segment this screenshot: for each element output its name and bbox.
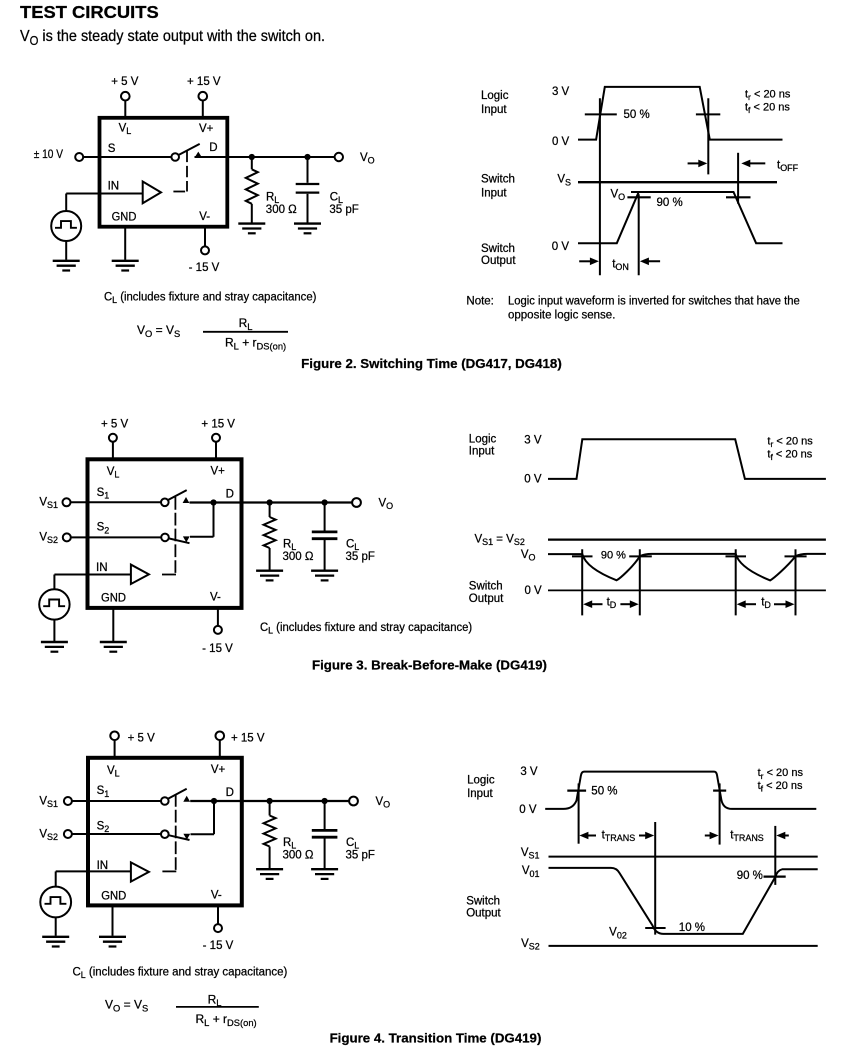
svg-text:is the steady state output wit: is the steady state output with the swit… bbox=[38, 28, 325, 45]
resistor RL 300ohm (fig2) bbox=[246, 169, 258, 204]
wire D to S2 contact horizontal (fig4) bbox=[191, 833, 215, 835]
svg-text:V-: V- bbox=[211, 890, 222, 902]
svg-text:< 20 ns: < 20 ns bbox=[763, 780, 803, 792]
capacitor CL 35pF (fig4) bbox=[312, 830, 338, 837]
svg-text:3 V: 3 V bbox=[524, 435, 542, 447]
svg-text:S1: S1 bbox=[47, 799, 58, 809]
0V level line (fig3) bbox=[548, 589, 826, 591]
wire S2 input (fig4) bbox=[72, 833, 161, 835]
logic input trace (fig4) bbox=[545, 772, 816, 809]
wire pulse gen to IN (fig2) bbox=[65, 194, 67, 212]
50% tick rising (fig2) bbox=[585, 113, 617, 115]
wire D to S2 contact vertical (fig4) bbox=[213, 801, 215, 834]
svg-text:02: 02 bbox=[617, 930, 627, 940]
wire IN net (fig4) bbox=[56, 870, 133, 872]
svg-text:+ 15 V: + 15 V bbox=[231, 733, 265, 745]
svg-text:V+: V+ bbox=[211, 465, 226, 477]
wire CL to ground (fig4) bbox=[324, 839, 326, 869]
wire D to RL (fig4) bbox=[269, 801, 271, 816]
svg-text:S2: S2 bbox=[47, 832, 58, 842]
svg-text:Output: Output bbox=[469, 593, 504, 605]
marker line 10% crossing (fig4) bbox=[654, 822, 656, 935]
svg-text:S1: S1 bbox=[47, 500, 58, 510]
logic input trace (fig2) bbox=[578, 87, 783, 140]
equation fraction bar (fig4) bbox=[176, 1006, 259, 1008]
90% tick rising (fig2) bbox=[627, 196, 650, 198]
switch arrow S2 (fig3) bbox=[183, 536, 190, 542]
terminal VO output (fig2) bbox=[335, 153, 343, 161]
svg-text:S1: S1 bbox=[529, 851, 540, 861]
svg-text:Logic: Logic bbox=[467, 775, 495, 787]
50% tick falling (fig2) bbox=[696, 113, 720, 115]
svg-text:O: O bbox=[113, 1003, 120, 1013]
dashed actuation line horizontal dash (fig2) bbox=[173, 191, 185, 193]
wire V+ pin to +15V (fig4) bbox=[219, 740, 221, 756]
50% tick rising (fig4) bbox=[567, 789, 586, 791]
svg-text:V: V bbox=[20, 28, 30, 45]
svg-text:Figure 4. Transition Time (DG4: Figure 4. Transition Time (DG419) bbox=[330, 1031, 542, 1046]
svg-text:R: R bbox=[196, 1012, 205, 1026]
svg-text:< 20 ns: < 20 ns bbox=[773, 448, 813, 460]
terminal VS2 input (fig4) bbox=[64, 830, 72, 838]
IC body DG417 (fig2) bbox=[100, 118, 228, 227]
terminal VS1 input (fig3) bbox=[63, 498, 71, 506]
wire GND pin (fig4) bbox=[112, 906, 114, 936]
wire pulse gen to ground (fig2) bbox=[65, 241, 67, 260]
marker line falling 50% (fig4) bbox=[719, 783, 721, 844]
svg-text:Input: Input bbox=[469, 446, 495, 458]
svg-text:GND: GND bbox=[101, 890, 126, 902]
10% tick (fig4) bbox=[645, 927, 665, 929]
junction D/RL (fig4) bbox=[267, 798, 273, 804]
svg-text:Logic input waveform is invert: Logic input waveform is inverted for swi… bbox=[508, 296, 800, 308]
svg-text:90 %: 90 % bbox=[657, 197, 683, 209]
svg-text:2: 2 bbox=[104, 525, 109, 535]
arrow tD1 right (fig3) bbox=[620, 600, 638, 608]
terminal +15V supply (fig3) bbox=[212, 434, 220, 442]
svg-text:+ 5 V: + 5 V bbox=[101, 419, 129, 431]
svg-text:R: R bbox=[283, 837, 291, 849]
svg-text:300 Ω: 300 Ω bbox=[283, 551, 314, 563]
svg-text:R: R bbox=[208, 992, 217, 1006]
svg-text:O: O bbox=[30, 34, 39, 48]
pulse generator source (fig2) bbox=[51, 211, 81, 241]
svg-text:O: O bbox=[145, 329, 152, 339]
svg-text:D: D bbox=[209, 142, 217, 154]
marker line tON start (fig2) bbox=[599, 98, 601, 275]
svg-text:Output: Output bbox=[481, 255, 516, 267]
svg-text:V+: V+ bbox=[211, 764, 226, 776]
pulse generator source (fig3) bbox=[39, 589, 69, 619]
VS level line (fig2) bbox=[578, 181, 777, 183]
svg-text:Input: Input bbox=[481, 188, 507, 200]
arrow tTRANS1 left (fig4) bbox=[579, 832, 596, 840]
VS1 level line (fig4) bbox=[549, 856, 818, 858]
svg-text:L: L bbox=[115, 769, 120, 779]
arrow tTRANS1 right (fig4) bbox=[639, 832, 654, 840]
capacitor CL 35pF (fig2) bbox=[296, 184, 320, 193]
IC body DG419 (fig3) bbox=[88, 459, 242, 608]
equation fraction bar (fig2) bbox=[203, 331, 288, 333]
switch output rise trace (fig2) bbox=[578, 192, 639, 243]
dashed actuation line vertical (fig2) bbox=[186, 151, 188, 192]
dashed actuation line vertical (fig3) bbox=[174, 497, 176, 575]
driver buffer (fig2) bbox=[143, 182, 161, 204]
svg-text:35 pF: 35 pF bbox=[329, 204, 358, 216]
wire D to CL (fig3) bbox=[324, 503, 326, 531]
svg-text:+ r: + r bbox=[209, 1012, 227, 1026]
svg-text:S: S bbox=[565, 177, 571, 187]
svg-text:10 %: 10 % bbox=[679, 922, 705, 934]
svg-text:O: O bbox=[618, 192, 625, 202]
svg-text:DS(on): DS(on) bbox=[257, 341, 287, 351]
junction D/CL (fig3) bbox=[322, 499, 328, 505]
capacitor CL 35pF (fig3) bbox=[312, 532, 338, 539]
svg-text:+ 15 V: + 15 V bbox=[201, 419, 235, 431]
wire V- pin (fig3) bbox=[217, 608, 219, 626]
junction D branch (fig3) bbox=[210, 499, 216, 505]
arrow tD1 left (fig3) bbox=[583, 600, 602, 608]
arrow tOFF right (fig2) bbox=[741, 160, 765, 168]
switch output high trace (fig2) bbox=[631, 192, 783, 243]
90% tick dip1 right (fig3) bbox=[629, 555, 652, 557]
terminal -15V supply (fig3) bbox=[214, 626, 222, 634]
arrow tTRANS2 right (fig4) bbox=[776, 832, 789, 840]
svg-text:- 15 V: - 15 V bbox=[189, 262, 220, 274]
arrow tD2 right (fig3) bbox=[774, 600, 795, 608]
svg-text:V-: V- bbox=[210, 592, 221, 604]
IC body DG419 (fig4) bbox=[88, 758, 242, 906]
wire S1 input (fig3) bbox=[71, 501, 161, 503]
terminal +5V supply (fig3) bbox=[109, 434, 117, 442]
svg-text:TRANS: TRANS bbox=[733, 833, 763, 843]
analog switch S1 (fig3) bbox=[161, 490, 187, 506]
marker line dip2 end (fig3) bbox=[795, 549, 797, 615]
analog switch S2 (fig3) bbox=[161, 534, 189, 544]
wire D to RL (fig2) bbox=[251, 157, 253, 169]
switch output trace with two dips (fig3) bbox=[548, 554, 826, 581]
svg-text:R: R bbox=[239, 316, 248, 330]
svg-text:OFF: OFF bbox=[780, 163, 798, 173]
wire IN net (fig2) bbox=[66, 193, 143, 195]
svg-text:C: C bbox=[73, 967, 81, 979]
wire pulse gen to ground (fig3) bbox=[53, 620, 55, 641]
marker line tOFF end (fig2) bbox=[737, 153, 739, 204]
wire VL pin to +5V (fig3) bbox=[112, 442, 114, 459]
switch arrow contact (fig2) bbox=[195, 152, 202, 158]
svg-text:1: 1 bbox=[104, 491, 109, 501]
wire GND pin (fig2) bbox=[124, 227, 126, 259]
svg-text:R: R bbox=[225, 336, 234, 350]
resistor RL 300ohm (fig3) bbox=[264, 517, 276, 548]
wire GND pin (fig3) bbox=[112, 608, 114, 641]
dashed actuation line horizontal dash (fig3) bbox=[162, 574, 176, 576]
ground (RL, fig4) bbox=[256, 869, 283, 879]
svg-text:35 pF: 35 pF bbox=[346, 551, 375, 563]
wire D to S2 contact vertical (fig3) bbox=[213, 503, 215, 537]
wire RL to ground (fig4) bbox=[269, 847, 271, 869]
svg-text:C: C bbox=[260, 622, 268, 634]
terminal VO output (fig3) bbox=[352, 498, 361, 507]
svg-text:Output: Output bbox=[466, 908, 501, 920]
svg-text:0 V: 0 V bbox=[524, 585, 542, 597]
svg-text:300 Ω: 300 Ω bbox=[283, 850, 314, 862]
svg-text:Input: Input bbox=[481, 104, 507, 116]
svg-text:S2: S2 bbox=[529, 942, 540, 952]
svg-text:0 V: 0 V bbox=[552, 241, 570, 253]
svg-text:+ 15 V: + 15 V bbox=[187, 76, 221, 88]
svg-text:S: S bbox=[174, 329, 180, 339]
90% tick (fig4) bbox=[764, 875, 786, 877]
svg-text:0 V: 0 V bbox=[524, 473, 542, 485]
arrow tOFF left (fig2) bbox=[688, 160, 708, 168]
wire CL to ground (fig2) bbox=[307, 194, 309, 223]
ground (RL, fig3) bbox=[256, 571, 283, 581]
wire S2 input (fig3) bbox=[71, 536, 161, 538]
arrow tTRANS2 left (fig4) bbox=[705, 832, 719, 840]
marker line tOFF start (fig2) bbox=[707, 98, 709, 174]
wire RL to ground (fig3) bbox=[269, 548, 271, 570]
svg-text:O: O bbox=[529, 553, 536, 563]
svg-text:D: D bbox=[226, 489, 234, 501]
svg-text:S1: S1 bbox=[482, 537, 493, 547]
wire S1 input (fig4) bbox=[72, 800, 161, 802]
svg-text:ON: ON bbox=[615, 262, 628, 272]
wire V- pin (fig2) bbox=[204, 227, 206, 246]
svg-text:O: O bbox=[368, 156, 375, 166]
wire D output net (fig2) bbox=[195, 156, 335, 158]
terminal VO output (fig4) bbox=[349, 797, 358, 806]
junction D/RL (fig3) bbox=[267, 499, 273, 505]
switch arrow S1 (fig4) bbox=[183, 796, 190, 802]
svg-text:L: L bbox=[126, 126, 131, 136]
svg-text:V+: V+ bbox=[199, 123, 214, 135]
svg-text:300 Ω: 300 Ω bbox=[266, 204, 297, 216]
svg-text:Switch: Switch bbox=[469, 580, 503, 592]
svg-text:+ 5 V: + 5 V bbox=[111, 76, 139, 88]
wire V+ pin to +15V (fig3) bbox=[215, 442, 217, 459]
svg-text:opposite logic sense.: opposite logic sense. bbox=[508, 310, 615, 322]
svg-text:GND: GND bbox=[112, 211, 137, 223]
wire D to CL (fig2) bbox=[307, 157, 309, 183]
svg-text:Switch: Switch bbox=[481, 173, 515, 185]
svg-text:S: S bbox=[142, 1003, 148, 1013]
terminal +5V supply (fig4) bbox=[110, 732, 119, 741]
resistor RL 300ohm (fig4) bbox=[264, 816, 276, 847]
analog switch (fig2) bbox=[171, 144, 199, 161]
svg-text:50 %: 50 % bbox=[591, 785, 617, 797]
svg-text:- 15 V: - 15 V bbox=[202, 643, 233, 655]
marker line dip2 start (fig3) bbox=[735, 549, 737, 615]
ground (GND pin, fig2) bbox=[112, 261, 139, 271]
dashed actuation line horizontal dash (fig4) bbox=[162, 870, 176, 872]
svg-text:35 pF: 35 pF bbox=[346, 850, 375, 862]
terminal +5V supply (fig2) bbox=[121, 92, 130, 101]
svg-text:Switch: Switch bbox=[466, 895, 500, 907]
svg-text:(includes fixture and stray ca: (includes fixture and stray capacitance) bbox=[273, 622, 472, 634]
svg-text:3 V: 3 V bbox=[552, 86, 570, 98]
terminal VS1 input (fig4) bbox=[64, 797, 72, 805]
wire IN net (fig3) bbox=[54, 574, 130, 576]
wire CL to ground (fig3) bbox=[324, 540, 326, 570]
svg-text:(includes fixture and stray ca: (includes fixture and stray capacitance) bbox=[117, 292, 316, 304]
svg-text:O: O bbox=[383, 800, 390, 810]
svg-text:Figure 2. Switching Time (DG41: Figure 2. Switching Time (DG417, DG418) bbox=[301, 356, 562, 371]
svg-text:C: C bbox=[346, 837, 354, 849]
ground (CL, fig3) bbox=[311, 571, 338, 581]
driver buffer (fig3) bbox=[131, 565, 149, 584]
svg-text:(includes fixture and stray ca: (includes fixture and stray capacitance) bbox=[86, 967, 288, 979]
svg-text:± 10 V: ± 10 V bbox=[34, 149, 63, 161]
svg-text:DS(on): DS(on) bbox=[227, 1018, 257, 1028]
logic input trace (fig3) bbox=[548, 439, 826, 479]
90% tick falling (fig2) bbox=[726, 196, 751, 198]
svg-text:C: C bbox=[330, 191, 338, 203]
ground (GND pin, fig3) bbox=[100, 642, 127, 652]
svg-text:L: L bbox=[247, 322, 252, 332]
svg-text:S2: S2 bbox=[514, 537, 525, 547]
terminal +15V supply (fig4) bbox=[216, 732, 225, 741]
terminal -15V supply (fig4) bbox=[214, 924, 222, 932]
svg-text:Figure 3. Break-Before-Make (D: Figure 3. Break-Before-Make (DG419) bbox=[312, 658, 547, 673]
VS level line (fig3) bbox=[548, 538, 826, 540]
svg-text:01: 01 bbox=[530, 869, 540, 879]
wire S input (fig2) bbox=[83, 156, 171, 158]
svg-text:1: 1 bbox=[104, 789, 109, 799]
90% tick dip2 right (fig3) bbox=[785, 555, 807, 557]
ground (pulse gen, fig4) bbox=[42, 937, 69, 947]
svg-text:S: S bbox=[108, 143, 116, 155]
terminal VS2 input (fig3) bbox=[63, 533, 71, 541]
svg-text:L: L bbox=[114, 470, 119, 480]
90% tick dip1 left (fig3) bbox=[572, 555, 593, 557]
arrow tON left (fig2) bbox=[579, 258, 599, 266]
svg-text:- 15 V: - 15 V bbox=[203, 940, 234, 952]
svg-text:0 V: 0 V bbox=[552, 136, 570, 148]
svg-text:D: D bbox=[226, 787, 234, 799]
terminal -15V supply (fig2) bbox=[201, 246, 209, 254]
svg-text:Switch: Switch bbox=[481, 243, 515, 255]
wire V+ pin to +15V (fig2) bbox=[202, 101, 204, 117]
arrow tD2 left (fig3) bbox=[737, 600, 756, 608]
svg-text:GND: GND bbox=[101, 592, 126, 604]
junction D/CL (fig2) bbox=[304, 154, 310, 160]
wire D output net (fig4) bbox=[190, 800, 349, 802]
dashed actuation line vertical (fig4) bbox=[175, 794, 177, 871]
svg-text:0 V: 0 V bbox=[519, 804, 537, 816]
wire pulse gen to IN (fig3) bbox=[53, 575, 55, 590]
svg-text:D: D bbox=[764, 600, 771, 610]
arrow tON right (fig2) bbox=[640, 258, 660, 266]
analog switch S1 (fig4) bbox=[161, 789, 187, 805]
svg-text:= V: = V bbox=[493, 533, 514, 545]
switch arrow S1 (fig3) bbox=[183, 497, 190, 503]
ground (pulse gen, fig3) bbox=[41, 642, 68, 652]
svg-text:V: V bbox=[105, 998, 113, 1012]
ground (GND pin, fig4) bbox=[99, 937, 126, 947]
svg-text:R: R bbox=[266, 191, 274, 203]
svg-text:3 V: 3 V bbox=[520, 766, 538, 778]
svg-text:C: C bbox=[104, 292, 112, 304]
ground (CL, fig4) bbox=[311, 869, 338, 879]
svg-text:D: D bbox=[610, 600, 617, 610]
junction D/RL (fig2) bbox=[249, 154, 255, 160]
terminal ±10V input / node S (fig2) bbox=[75, 153, 83, 161]
svg-text:< 20 ns: < 20 ns bbox=[750, 102, 790, 114]
svg-text:IN: IN bbox=[108, 181, 120, 193]
svg-text:TEST CIRCUITS: TEST CIRCUITS bbox=[20, 2, 159, 22]
svg-text:90 %: 90 % bbox=[737, 870, 763, 882]
driver buffer (fig4) bbox=[131, 862, 149, 881]
svg-text:= V: = V bbox=[152, 323, 174, 337]
marker line rising 50% (fig4) bbox=[578, 783, 580, 843]
90% tick dip2 left (fig3) bbox=[726, 555, 747, 557]
marker line tON end (fig2) bbox=[638, 194, 640, 275]
marker line 90% crossing (fig4) bbox=[774, 826, 776, 885]
analog switch S2 (fig4) bbox=[161, 830, 190, 840]
svg-text:+ 5 V: + 5 V bbox=[128, 733, 156, 745]
svg-text:Logic: Logic bbox=[481, 90, 509, 102]
junction D branch (fig4) bbox=[211, 798, 217, 804]
svg-text:V: V bbox=[137, 323, 145, 337]
ground (CL, fig2) bbox=[294, 224, 321, 234]
svg-text:50 %: 50 % bbox=[624, 109, 650, 121]
svg-text:< 20 ns: < 20 ns bbox=[764, 767, 804, 779]
svg-text:90 %: 90 % bbox=[601, 550, 626, 562]
svg-text:O: O bbox=[386, 501, 393, 511]
svg-text:= V: = V bbox=[120, 998, 142, 1012]
svg-text:2: 2 bbox=[104, 824, 109, 834]
pulse generator source (fig4) bbox=[40, 887, 71, 918]
wire VL pin to +5V (fig4) bbox=[114, 740, 116, 756]
svg-text:Note:: Note: bbox=[466, 296, 494, 308]
svg-text:Input: Input bbox=[467, 788, 493, 800]
wire D to CL (fig4) bbox=[324, 801, 326, 829]
wire pulse gen to IN (fig4) bbox=[55, 871, 57, 886]
svg-text:Logic: Logic bbox=[469, 433, 497, 445]
switch output trace V01-V02 (fig4) bbox=[549, 868, 818, 934]
ground (RL, fig2) bbox=[238, 224, 265, 234]
wire D to S2 contact horizontal (fig3) bbox=[190, 536, 214, 538]
svg-text:TRANS: TRANS bbox=[605, 833, 635, 843]
junction D/CL (fig4) bbox=[322, 798, 328, 804]
VS2 level line (fig4) bbox=[549, 945, 818, 947]
svg-text:< 20 ns: < 20 ns bbox=[751, 89, 791, 101]
terminal +15V supply (fig2) bbox=[199, 92, 208, 101]
wire D output net (fig3) bbox=[190, 501, 353, 503]
wire D to RL (fig3) bbox=[269, 503, 271, 518]
svg-text:S2: S2 bbox=[47, 535, 58, 545]
wire V- pin (fig4) bbox=[217, 906, 219, 925]
svg-text:< 20 ns: < 20 ns bbox=[773, 435, 813, 447]
wire pulse gen to ground (fig4) bbox=[55, 917, 57, 935]
svg-text:IN: IN bbox=[96, 562, 108, 574]
marker line dip1 end (fig3) bbox=[639, 549, 641, 615]
marker line dip1 start (fig3) bbox=[581, 549, 583, 615]
ground (pulse gen, fig2) bbox=[53, 261, 80, 271]
svg-text:V-: V- bbox=[199, 211, 210, 223]
switch arrow S2 (fig4) bbox=[183, 834, 190, 840]
svg-text:IN: IN bbox=[97, 860, 109, 872]
50% tick falling (fig4) bbox=[713, 789, 726, 791]
svg-text:+ r: + r bbox=[239, 336, 257, 350]
wire VL pin to +5V (fig2) bbox=[124, 101, 126, 117]
wire RL to ground (fig2) bbox=[251, 204, 253, 223]
svg-text:C: C bbox=[346, 539, 354, 551]
svg-text:R: R bbox=[283, 539, 291, 551]
